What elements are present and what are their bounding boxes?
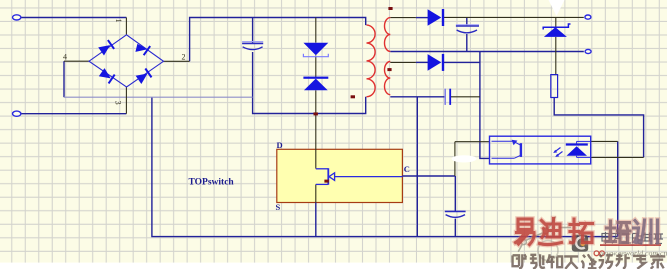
- svg-text:1: 1: [114, 19, 123, 23]
- svg-text:TOPswitch: TOPswitch: [189, 178, 235, 188]
- svg-text:4: 4: [63, 53, 67, 62]
- svg-text:C: C: [404, 164, 410, 174]
- svg-text:2: 2: [182, 53, 186, 62]
- svg-text:D: D: [277, 140, 283, 150]
- svg-text:3: 3: [114, 101, 123, 105]
- svg-text:S: S: [276, 202, 281, 212]
